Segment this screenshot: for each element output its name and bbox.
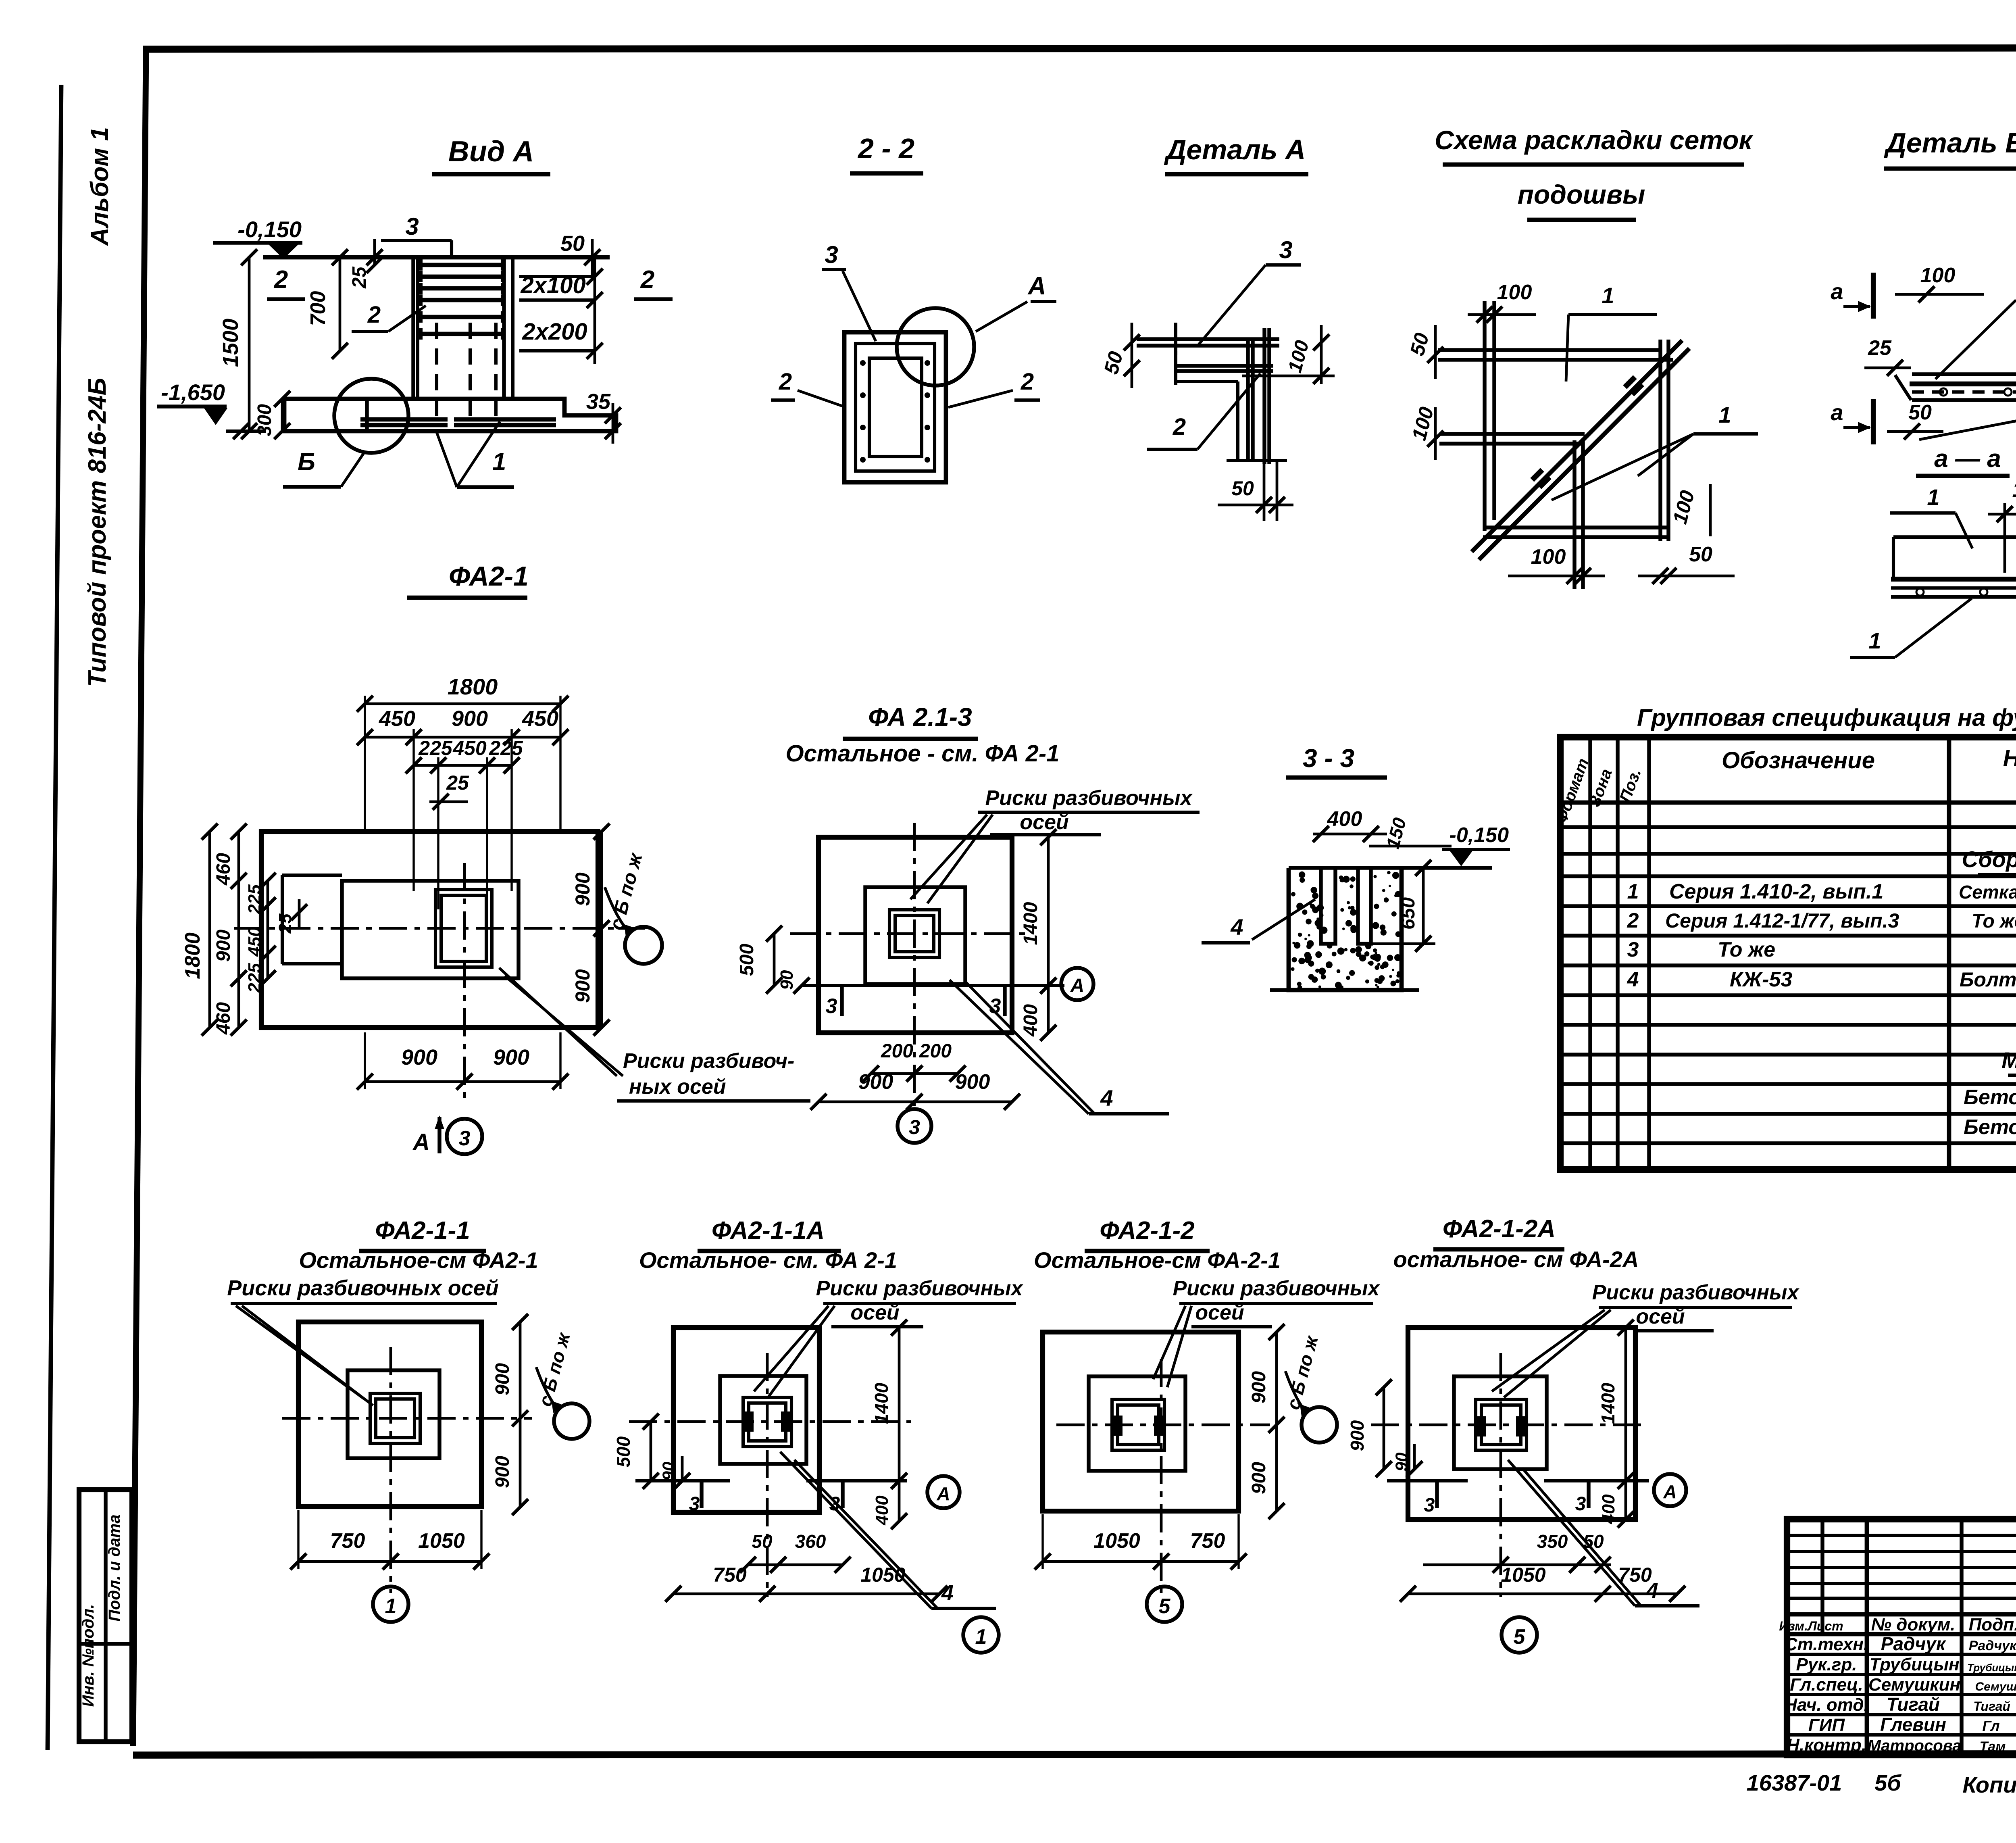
bottom-left stamp table Инв №подл / Подп и дата — [79, 1490, 132, 1742]
svg-text:1: 1 — [1602, 283, 1614, 308]
plan FA2-1 horizontal axis — [234, 927, 645, 930]
plan FA2-1-1А section line — [635, 1481, 730, 1515]
svg-text:Типовой проект 816-24Б: Типовой проект 816-24Б — [83, 378, 111, 687]
svg-text:16387-01: 16387-01 — [1747, 1770, 1842, 1795]
dim 400 section 3-3 — [1313, 807, 1387, 842]
svg-text:Схема раскладки сеток: Схема раскладки сеток — [1435, 125, 1754, 155]
left dim 90 FA2-1-3 — [777, 952, 810, 994]
svg-text:1: 1 — [385, 1595, 397, 1618]
view title Деталь Б — [1884, 127, 2016, 169]
svg-text:460: 460 — [213, 1002, 234, 1035]
mesh top chord double line — [1438, 350, 1673, 360]
svg-text:А: А — [1027, 272, 1046, 300]
svg-text:50: 50 — [1689, 543, 1712, 566]
plan FA2-1-2 right dim 900 900 — [1248, 1324, 1285, 1519]
plan FA2-1-2 anchor bolt blobs — [1112, 1416, 1164, 1436]
svg-text:1: 1 — [1868, 628, 1881, 653]
svg-text:350: 350 — [1537, 1531, 1568, 1552]
svg-text:750: 750 — [713, 1564, 747, 1586]
svg-text:Глевин: Глевин — [1880, 1714, 1946, 1735]
svg-text:300: 300 — [254, 404, 275, 436]
plan FA2-1-2А inner box double — [1476, 1399, 1527, 1450]
svg-text:650: 650 — [1397, 897, 1419, 930]
plan FA2-1-2А anchor bolt blobs — [1476, 1416, 1527, 1436]
label 3 with leader on 2-2 — [822, 241, 876, 341]
dim 100 detail B top — [1895, 264, 1984, 302]
label 1 bottom a-a with leader — [1850, 598, 1972, 657]
bottom margin text 5б — [1874, 1770, 1901, 1795]
svg-text:5б: 5б — [1874, 1770, 1901, 1795]
outer thin left border line — [48, 85, 61, 1750]
svg-text:А: А — [412, 1129, 430, 1155]
section 2-2 inner square — [869, 358, 922, 457]
svg-text:То же: То же — [1718, 938, 1775, 961]
concrete pier outline section 3-3 — [1270, 868, 1419, 990]
svg-text:100: 100 — [1497, 281, 1532, 304]
plan FA2-1-2А vertical axis — [1500, 1353, 1502, 1597]
svg-text:3: 3 — [1279, 236, 1292, 263]
label 4 with leaders FA2-1-3 — [950, 980, 1169, 1114]
plan FA2-1-3 vertical axis — [913, 823, 916, 1106]
section mark 2 left — [267, 266, 305, 299]
svg-text:Риски разбивоч-: Риски разбивоч- — [623, 1049, 794, 1073]
svg-text:4: 4 — [1230, 914, 1243, 940]
svg-text:3: 3 — [1575, 1493, 1586, 1515]
svg-text:-0,150: -0,150 — [1450, 824, 1509, 847]
title block row Ст.техн Радчук — [1785, 1633, 2016, 1654]
spec table header Обозначение — [1722, 747, 1875, 773]
dim 50 bottom right mesh — [1638, 543, 1735, 584]
dim ladder lines right — [519, 257, 603, 364]
rebar cage horizontal bars — [419, 259, 505, 340]
dim 1800 top — [357, 674, 569, 712]
rebar cage vertical bars dashed below — [437, 323, 496, 423]
svg-text:450: 450 — [522, 707, 558, 731]
plan FA2-1-2А middle square — [1454, 1376, 1547, 1469]
label 1 top mesh with leader — [1566, 283, 1657, 382]
detail A horizontal mesh bars — [1137, 339, 1279, 371]
svg-text:Остальное- см. ФА 2-1: Остальное- см. ФА 2-1 — [639, 1247, 897, 1273]
plan FA2-1-1А anchor bolt blobs — [743, 1411, 791, 1432]
svg-text:Наименование: Наименование — [2003, 745, 2016, 771]
svg-text:Риски разбивочных осей: Риски разбивочных осей — [227, 1276, 499, 1300]
plan FA2-1-3 middle square — [865, 887, 965, 984]
axis circle А ФА2-1-1А — [927, 1476, 960, 1508]
svg-text:ных осей: ных осей — [629, 1075, 726, 1099]
svg-text:А: А — [1663, 1481, 1677, 1502]
svg-text:50: 50 — [560, 231, 585, 256]
left dim stack 225 450 225 — [245, 873, 276, 993]
svg-text:400: 400 — [1327, 807, 1362, 831]
svg-text:2: 2 — [779, 369, 792, 395]
spec table row Бетон марки 150 — [1964, 1115, 2016, 1139]
title block row Рук.гр Трубицын — [1796, 1655, 2016, 1674]
title block top-left small grid rows — [1787, 1535, 2016, 1598]
spec table row Бетон марки 50 — [1964, 1086, 2016, 1109]
svg-text:1800: 1800 — [181, 932, 204, 979]
mesh second horizontal double line — [1439, 434, 1585, 444]
svg-text:Риски разбивочных: Риски разбивочных — [1173, 1277, 1381, 1300]
view title 2-2 — [850, 133, 923, 173]
dim 100 bottom mesh — [1508, 545, 1605, 584]
svg-text:Остальное - см. ФА 2-1: Остальное - см. ФА 2-1 — [786, 740, 1060, 767]
plan FA2-1-3 outer square — [818, 837, 1012, 1033]
plan subtitle ФА2-1-1 — [299, 1247, 538, 1273]
svg-text:1050: 1050 — [1501, 1564, 1545, 1586]
column formwork verticals — [413, 257, 513, 399]
svg-text:2: 2 — [1627, 909, 1639, 932]
svg-text:Семушкин: Семушкин — [1868, 1675, 1960, 1695]
svg-text:900: 900 — [452, 707, 488, 731]
label Риски разбивочных осей ФА2-1-1 — [227, 1276, 499, 1405]
plan FA2-1-1 right dim 900 900 — [492, 1314, 528, 1515]
left dim stack 1800 — [181, 824, 218, 1036]
svg-text:1: 1 — [492, 448, 506, 476]
view title Деталь А — [1164, 134, 1308, 174]
svg-text:1: 1 — [1718, 402, 1731, 427]
svg-text:ФА2-1-2: ФА2-1-2 — [1100, 1217, 1195, 1245]
detail circle A on section 2-2 — [897, 308, 974, 386]
axis circle А ФА2-1-2А — [1654, 1474, 1686, 1506]
axis note с Б по ж ФА2-1-1 — [534, 1330, 589, 1439]
svg-text:25: 25 — [446, 771, 469, 794]
plan FA2-1-3 inner box double — [889, 910, 939, 957]
dim 50 left rotated — [1100, 323, 1140, 388]
title block row Н.контр Матросова — [1787, 1735, 2016, 1755]
left dim stack 460 900 460 — [213, 824, 247, 1036]
svg-text:осей: осей — [1020, 811, 1068, 834]
svg-text:а: а — [1831, 400, 1843, 425]
plan title ФА2-1-1 — [359, 1217, 486, 1251]
svg-text:№ докум.: № докум. — [1871, 1615, 1956, 1635]
section arrow a top — [1831, 273, 1873, 319]
detail A left bar end ticks — [1174, 323, 1177, 385]
view title а-а — [1916, 445, 2010, 476]
svg-text:3: 3 — [459, 1127, 471, 1150]
label 2 left leader — [771, 369, 846, 407]
svg-text:90: 90 — [1392, 1453, 1411, 1472]
svg-text:остальное- см ФА-2А: остальное- см ФА-2А — [1393, 1247, 1639, 1272]
svg-text:Трубицын: Трубицын — [1967, 1662, 2016, 1674]
svg-text:Б: Б — [298, 448, 315, 476]
mesh middle vertical double line — [1574, 440, 1583, 589]
svg-text:Групповая спецификация на: Групповая спецификация на фундамент — [1637, 704, 2016, 731]
dim 2x200 — [522, 319, 587, 345]
title block row ГИП Глевин — [1808, 1714, 2000, 1735]
axis circle 1 ФА2-1-1А — [963, 1617, 999, 1653]
detail A vertical mesh bars — [1248, 328, 1269, 464]
spec table row 1 — [1627, 880, 2016, 903]
svg-text:Альбом 1: Альбом 1 — [86, 127, 114, 246]
spec table row 4 — [1627, 968, 2016, 991]
label 3 with leader detail A — [1199, 236, 1301, 344]
elevation -0,150 section 3-3 — [1442, 824, 1510, 866]
svg-text:Гл.спец.: Гл.спец. — [1790, 1675, 1863, 1695]
svg-text:Бетон марки 150: Бетон марки 150 — [1964, 1115, 2016, 1139]
svg-text:Болт анкерный А1: Болт анкерный А1 — [1960, 968, 2016, 991]
svg-text:750: 750 — [1190, 1529, 1225, 1553]
svg-text:400: 400 — [1020, 1004, 1041, 1037]
dim 25 small — [429, 771, 469, 810]
ground level line — [263, 255, 610, 260]
svg-text:Сетка армат. С10АП-8х18: Сетка армат. С10АП-8х18 — [1959, 882, 2016, 903]
plan subtitle Остальное см ФА2-1 — [786, 740, 1060, 767]
concrete texture dots section 3-3 — [1291, 871, 1401, 990]
svg-text:400: 400 — [872, 1495, 892, 1526]
vertical dim 25 small — [349, 239, 383, 289]
plan FA2-1-1А section line right — [806, 1481, 907, 1515]
svg-text:900: 900 — [571, 872, 594, 906]
svg-text:2: 2 — [1020, 369, 1034, 395]
svg-text:Инв. №подл.: Инв. №подл. — [79, 1604, 97, 1707]
axis note с Б по ж with circle — [605, 850, 662, 964]
title block header row line — [1787, 1614, 2016, 1634]
spec table subheader Материалы — [2001, 1047, 2016, 1075]
label А with leader — [976, 272, 1056, 331]
plan FA2-1-2А bottom dims 350 50 — [1423, 1531, 1611, 1573]
svg-text:1400: 1400 — [1597, 1382, 1618, 1424]
plan FA2-1-1А inner box double — [743, 1397, 791, 1447]
svg-text:900: 900 — [858, 1070, 893, 1094]
plan FA2-1-2 horizontal axis — [1056, 1424, 1270, 1426]
plan FA2-1-2 outer square — [1043, 1332, 1239, 1511]
section 2-2 outer square — [844, 332, 946, 482]
detail B plate drawing — [1895, 374, 2016, 400]
svg-text:25: 25 — [1868, 336, 1892, 360]
axis circle 5 ФА2-1-2 — [1147, 1587, 1182, 1622]
svg-text:225: 225 — [489, 737, 523, 759]
plan FA2-1-2А horizontal axis — [1371, 1424, 1645, 1426]
spec table title Групповая спецификация на фундамент — [1637, 704, 2016, 731]
svg-text:Ст.техн.: Ст.техн. — [1785, 1635, 1868, 1654]
svg-text:ФА 2.1-3: ФА 2.1-3 — [868, 703, 972, 732]
svg-text:900: 900 — [492, 1363, 513, 1395]
label Риски разбивочных осей FA2-1-3 — [910, 786, 1200, 903]
svg-text:Трубицын: Трубицын — [1869, 1655, 1959, 1674]
svg-text:225: 225 — [245, 884, 264, 915]
label 1 bottom right detail B — [1919, 389, 2016, 440]
svg-text:Остальное-см ФА-2-1: Остальное-см ФА-2-1 — [1034, 1247, 1281, 1273]
label 4 with leader section 3-3 — [1202, 899, 1315, 943]
svg-text:3: 3 — [1424, 1495, 1435, 1516]
plan title ФА2-1 — [407, 561, 529, 598]
svg-text:3: 3 — [825, 241, 838, 268]
svg-text:4: 4 — [1627, 968, 1639, 991]
spec table header horizontal lines — [1560, 774, 2016, 803]
svg-text:900: 900 — [1347, 1420, 1368, 1451]
svg-text:Остальное-см ФА2-1: Остальное-см ФА2-1 — [299, 1247, 538, 1273]
axis circle 3 below FA2-1-3 — [898, 1109, 931, 1143]
bottom dim 900 900 — [357, 1032, 569, 1090]
svg-text:Радчук: Радчук — [1881, 1633, 1947, 1654]
svg-text:подошвы: подошвы — [1518, 179, 1645, 209]
view title подошвы — [1518, 179, 1645, 220]
svg-text:Изм.Лист: Изм.Лист — [1779, 1619, 1843, 1633]
svg-text:1: 1 — [975, 1625, 987, 1649]
mesh diagonal bar with break marks — [1472, 340, 1689, 560]
plan FA2-1 inner column box double — [435, 890, 492, 967]
plan FA2-1-1А left dims 500 90 — [613, 1414, 690, 1489]
svg-text:200: 200 — [919, 1040, 952, 1062]
svg-text:Обозначение: Обозначение — [1722, 747, 1875, 773]
svg-text:360: 360 — [795, 1531, 826, 1552]
svg-text:2: 2 — [1173, 414, 1186, 440]
svg-text:Подл. и дата: Подл. и дата — [106, 1514, 123, 1621]
svg-text:1400: 1400 — [1020, 902, 1041, 945]
svg-text:Тигай: Тигай — [1973, 1699, 2010, 1714]
dim 25 detail B — [1864, 336, 1911, 376]
svg-text:90: 90 — [777, 970, 797, 990]
svg-text:200: 200 — [881, 1040, 913, 1062]
svg-text:2: 2 — [640, 266, 654, 294]
title block row Гл.спец Семушкин — [1790, 1675, 2016, 1695]
svg-text:-1,650: -1,650 — [161, 379, 225, 405]
svg-text:2 - 2: 2 - 2 — [857, 133, 914, 164]
plan title ФА2-1-2 — [1085, 1217, 1210, 1251]
svg-text:ФА2-1-1: ФА2-1-1 — [375, 1217, 470, 1245]
section mark 2 right — [634, 266, 673, 299]
spec table row 3 — [1627, 938, 2016, 961]
plan FA2-1-1А middle square — [720, 1376, 806, 1464]
axis circle А FA2-1-3 — [1061, 968, 1093, 1000]
svg-text:Радчук: Радчук — [1969, 1638, 2016, 1653]
dims 450 900 450 — [357, 707, 569, 745]
plan FA2-1 middle rectangle — [342, 881, 519, 978]
svg-text:900: 900 — [571, 969, 594, 1003]
view title Вид А — [432, 136, 550, 174]
label 1 right mesh with two leaders — [1552, 402, 1758, 500]
axis circle 5 ФА2-1-2А — [1502, 1617, 1537, 1653]
label 1 detail B with leader — [1935, 269, 2016, 379]
right dim 900 900 — [571, 824, 610, 1036]
svg-text:Риски разбивочных: Риски разбивочных — [816, 1277, 1024, 1300]
svg-text:4: 4 — [941, 1581, 954, 1605]
plan FA2-1-2А right dims 1400 400 — [1597, 1320, 1634, 1528]
svg-text:50: 50 — [1908, 401, 1932, 424]
spec table header Наименование — [2003, 745, 2016, 771]
dim 2x100 — [520, 272, 585, 298]
dim 50 bottom detail A — [1218, 461, 1293, 521]
dim 150 section 3-3 rotated — [1369, 815, 1452, 851]
svg-text:а — а: а — а — [1934, 445, 2001, 473]
label 1 a-a with leader — [1890, 484, 1972, 548]
svg-text:3: 3 — [405, 213, 419, 240]
svg-text:750: 750 — [330, 1529, 365, 1553]
plan FA2-1-3 section line 3-3 — [803, 986, 1064, 1018]
plan FA2-1-1А horizontal axis — [629, 1420, 911, 1423]
mesh bottom chord double line — [1483, 527, 1670, 537]
svg-text:Риски разбивочных: Риски разбивочных — [985, 786, 1193, 810]
section title 3-3 — [1286, 744, 1387, 778]
svg-text:ФА2-1: ФА2-1 — [449, 561, 529, 592]
svg-text:Нач. отд.: Нач. отд. — [1784, 1695, 1869, 1715]
label 4 with leaders ФА2-1-1А — [780, 1452, 996, 1608]
dim 100 left mesh — [1408, 404, 1443, 460]
svg-text:То же: То же — [1972, 911, 2016, 932]
dims 225 450 225 — [406, 737, 523, 773]
svg-text:5: 5 — [1514, 1625, 1526, 1649]
label 2 with leader detail A — [1147, 373, 1260, 449]
left dim 25 small rotated — [275, 899, 307, 934]
svg-text:900: 900 — [955, 1070, 990, 1094]
svg-text:3 - 3: 3 - 3 — [1303, 744, 1354, 773]
plan FA2-1-2 vertical axis — [1160, 1359, 1163, 1593]
title block row Нач.отд Тигай — [1784, 1694, 2016, 1715]
svg-text:1050: 1050 — [1093, 1529, 1140, 1553]
vertical dim 300 — [254, 391, 290, 439]
svg-text:5: 5 — [1159, 1595, 1171, 1618]
plan FA2-1-2А section line — [1387, 1481, 1468, 1516]
svg-text:Н.контр.: Н.контр. — [1787, 1735, 1866, 1755]
svg-text:900: 900 — [492, 1456, 513, 1488]
dim 50 detail B bottom — [1873, 401, 1943, 440]
plan FA2-1-1 inner box double — [370, 1393, 420, 1443]
svg-text:Вид А: Вид А — [448, 136, 534, 168]
spec table row lines — [1560, 827, 2016, 1143]
plan FA2-1-2А section line right — [1544, 1481, 1649, 1515]
svg-text:Гл: Гл — [1982, 1718, 1999, 1734]
svg-text:КЖ-53: КЖ-53 — [1730, 968, 1792, 991]
axis note с Б по ж ФА2-1-2 — [1282, 1333, 1337, 1443]
svg-text:900: 900 — [1248, 1371, 1270, 1403]
svg-text:Подп.: Подп. — [1969, 1615, 2016, 1635]
svg-text:ФА2-1-1А: ФА2-1-1А — [712, 1217, 825, 1245]
svg-text:900: 900 — [401, 1045, 437, 1070]
plan FA2-1-2А bottom dims 1050 750 — [1400, 1564, 1685, 1602]
bottom margin text Копировал — [1962, 1772, 2016, 1797]
footing rebar lines — [360, 419, 556, 425]
svg-text:2х100: 2х100 — [520, 272, 585, 298]
dim 35 right of footing — [586, 390, 621, 444]
svg-text:Там: Там — [1980, 1739, 2006, 1754]
extension lines from top dims — [365, 696, 560, 909]
svg-text:3: 3 — [909, 1116, 920, 1138]
svg-text:ФА2-1-2А: ФА2-1-2А — [1443, 1215, 1556, 1243]
svg-text:а: а — [1831, 279, 1843, 304]
left dim 500 FA2-1-3 — [736, 926, 782, 994]
svg-text:Материалы: Материалы — [2001, 1047, 2016, 1073]
title block header texts Изм Лист №докум Подп Дата — [1779, 1615, 2016, 1635]
svg-text:225: 225 — [418, 737, 453, 759]
section 2-2 bolt dots — [860, 360, 930, 463]
svg-text:900: 900 — [493, 1045, 529, 1070]
spec table outer border — [1560, 737, 2016, 1170]
plan FA2-1 outer square — [261, 832, 598, 1028]
bottom margin text 16387-01 — [1747, 1770, 1842, 1795]
svg-text:225: 225 — [245, 963, 264, 993]
svg-text:460: 460 — [213, 853, 234, 886]
mesh left vertical double line — [1485, 301, 1494, 531]
svg-text:900: 900 — [213, 930, 234, 962]
svg-text:Рук.гр.: Рук.гр. — [1796, 1655, 1857, 1674]
svg-text:1800: 1800 — [448, 674, 498, 699]
svg-text:500: 500 — [613, 1436, 634, 1467]
sidebar label Альбом 1 — [86, 127, 114, 246]
detail A bottom edge line — [1227, 459, 1287, 462]
svg-text:ГИП: ГИП — [1808, 1715, 1845, 1735]
spec table vertical lines — [1590, 737, 2016, 1170]
label Риски разбивочных осей ФА2-1-1А — [754, 1277, 1023, 1397]
right dim 1400 400 FA2-1-3 — [1020, 829, 1056, 1041]
svg-text:50: 50 — [752, 1531, 773, 1552]
label 3 with bracket leader — [381, 213, 452, 258]
plan FA2-1-1 middle square — [348, 1370, 439, 1458]
title block outer border — [1787, 1519, 2016, 1755]
svg-text:1: 1 — [1927, 484, 1939, 510]
svg-text:400: 400 — [1599, 1494, 1618, 1524]
svg-text:35: 35 — [586, 390, 611, 414]
svg-text:2: 2 — [367, 302, 381, 328]
